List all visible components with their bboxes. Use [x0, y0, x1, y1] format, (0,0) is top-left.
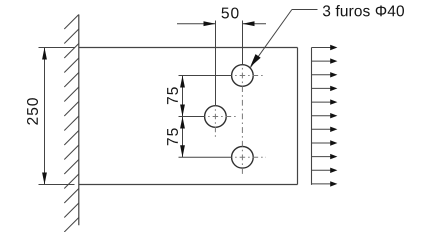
- leader arrowhead: [250, 54, 261, 67]
- dimension 250 arrow down: [42, 173, 47, 185]
- load arrow 7: [312, 127, 338, 132]
- wall line: [78, 15, 80, 226]
- hole H1 top circle: [232, 65, 254, 87]
- dimension 75 extension line at hole H3: [179, 156, 232, 158]
- dimension 75 upper label: [167, 87, 178, 104]
- load arrow 1: [312, 45, 338, 50]
- dimension 50 arrow pointing right: [204, 21, 216, 26]
- dimension 50 extension line right: [242, 21, 244, 65]
- dimension 250 line: [44, 48, 46, 185]
- leader line diagonal segment: [251, 10, 292, 68]
- dimension 75 upper arrow up: [180, 76, 185, 88]
- dimension 75 lower label: [167, 128, 178, 145]
- load arrow 9: [312, 154, 338, 159]
- leader line horizontal segment: [292, 9, 318, 11]
- center line vertical through holes H1 and H3: [241, 65, 243, 177]
- load arrow 11: [312, 181, 338, 186]
- dimension 75 lower arrow down: [180, 145, 185, 157]
- dimension 50 label: [222, 7, 239, 18]
- dimension 250 arrow up: [42, 48, 47, 60]
- load arrow 2: [312, 58, 338, 63]
- dimension 75 lower arrow up: [180, 117, 185, 129]
- dimension 75 extension line at hole H1: [179, 75, 232, 77]
- hole H2 middle circle: [205, 106, 227, 128]
- load arrow 3: [312, 72, 338, 77]
- dimension 250 extension line bottom: [39, 184, 75, 186]
- dimension 250 extension line top: [39, 47, 75, 49]
- hole H3 bottom circle: [232, 147, 254, 169]
- load arrow 8: [312, 140, 338, 145]
- label 3 furos Φ40: [323, 5, 404, 16]
- dimension 75 extension line at hole H2: [179, 116, 205, 118]
- dimension 250 label: [27, 98, 38, 124]
- wall hatching: [64, 15, 79, 233]
- dimension 50 arrow pointing left: [243, 21, 255, 26]
- dimension 50 line left segment: [177, 23, 216, 25]
- dimension 50 line right segment: [243, 23, 267, 25]
- load arrow 5: [312, 99, 338, 104]
- load arrow 10: [312, 168, 338, 173]
- load arrow 4: [312, 86, 338, 91]
- dimension 75 upper arrow down: [180, 105, 185, 117]
- load arrow 6: [312, 113, 338, 118]
- center line vertical of hole H2: [214, 106, 216, 140]
- plate outline: [79, 48, 298, 185]
- center line horizontal of hole H2: [205, 116, 239, 118]
- dimension 50 extension line left: [215, 21, 217, 106]
- distributed load vertical line: [311, 48, 313, 185]
- dimension 75 line: [182, 76, 184, 158]
- center line horizontal of hole H1: [232, 75, 266, 77]
- center line horizontal of hole H3: [232, 156, 266, 158]
